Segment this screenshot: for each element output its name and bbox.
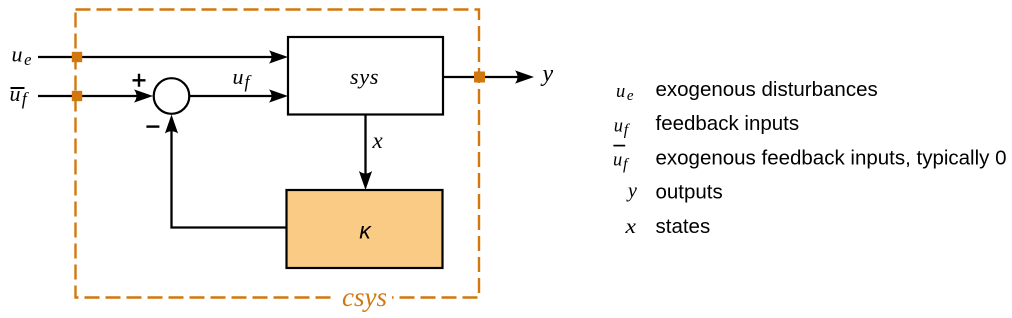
svg-text:y: y (626, 180, 637, 202)
svg-text:uf: uf (10, 81, 30, 109)
node marker ubar_f on boundary (72, 91, 82, 101)
block kappa (287, 190, 443, 268)
legend row y (626, 180, 723, 204)
svg-text:y: y (541, 61, 554, 87)
node marker y on boundary (474, 72, 485, 83)
legend row ubar_f (613, 146, 1007, 173)
legend row x (624, 215, 710, 238)
svg-text:exogenous feedback inputs, typ: exogenous feedback inputs, typically 0 (656, 146, 1007, 169)
label x (372, 128, 384, 153)
svg-text:ue: ue (12, 42, 32, 70)
wire x from sys to kappa (359, 115, 372, 191)
label u_f (233, 64, 253, 92)
plus sign (133, 74, 146, 87)
legend row u_f (614, 112, 799, 138)
summing junction (154, 78, 190, 114)
legend row u_e (616, 78, 878, 104)
wire ubar_f input (38, 89, 153, 102)
svg-text:states: states (656, 215, 711, 238)
label y (541, 61, 554, 87)
dashed boundary csys box (76, 10, 480, 306)
svg-text:uf: uf (614, 116, 631, 138)
svg-text:κ: κ (359, 218, 372, 244)
label ubar_f (10, 81, 30, 109)
wire u_e input (38, 50, 288, 63)
svg-text:uf: uf (613, 151, 630, 173)
wire feedback from kappa to summer (165, 115, 287, 228)
svg-text:x: x (372, 128, 384, 153)
minus sign (146, 125, 159, 127)
svg-text:exogenous disturbances: exogenous disturbances (656, 78, 878, 101)
svg-text:csys: csys (342, 282, 387, 312)
svg-text:outputs: outputs (656, 181, 723, 204)
svg-text:feedback inputs: feedback inputs (656, 112, 800, 135)
label u_e (12, 42, 32, 70)
block sys (288, 37, 443, 115)
svg-text:sys: sys (350, 64, 379, 89)
label csys (342, 282, 387, 312)
wire y output (443, 70, 534, 83)
svg-text:ue: ue (616, 82, 634, 104)
svg-text:x: x (624, 216, 636, 238)
node marker u_e on boundary (72, 52, 82, 62)
wire u_f from summer to sys (189, 89, 288, 102)
svg-text:uf: uf (233, 64, 253, 92)
